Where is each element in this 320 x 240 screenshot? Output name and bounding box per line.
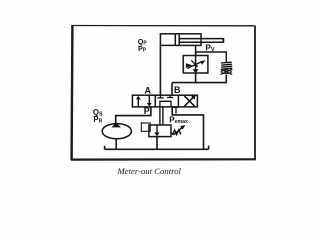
cylinder C1 body <box>160 34 223 46</box>
flow control valve F1 box <box>183 56 208 74</box>
flow control throttle and arrow <box>186 56 206 74</box>
relief valve adjust arrow <box>174 125 186 135</box>
wire: cylinder outlet down to flow valve <box>195 45 197 55</box>
valve right envelope crossed arrows <box>184 95 195 106</box>
valve V1 body <box>132 95 197 107</box>
svg-text:T: T <box>173 105 179 115</box>
relief valve R1 body <box>149 125 171 137</box>
wire: A-line valve to cylinder <box>159 45 161 95</box>
wire: Pv pilot line <box>196 52 227 63</box>
wire: flow valve to B-rail <box>195 73 197 83</box>
wire: T-line valve to tank <box>172 107 203 149</box>
check valve spring (right branch) <box>221 62 232 69</box>
border frame <box>71 25 256 160</box>
svg-text:P: P <box>144 106 150 116</box>
wire: P-line pump to valve <box>116 107 151 123</box>
wire: B-line down to valve <box>171 83 173 96</box>
wire: relief valve to tank rail <box>156 137 158 149</box>
svg-text:Meter-out Control: Meter-out Control <box>117 166 182 176</box>
valve centre blocked ports <box>157 95 173 107</box>
tank rail <box>105 146 209 150</box>
cylinder rod <box>179 38 223 40</box>
relief valve R1 pilot box <box>141 123 150 131</box>
pump P1 <box>102 123 131 139</box>
check valve poppet <box>221 69 233 74</box>
wire: double line valve to relief valve <box>159 107 161 125</box>
relief valve spring <box>171 130 181 135</box>
svg-text:B: B <box>174 85 181 95</box>
relief valve arrow <box>154 125 159 136</box>
valve left envelope arrows <box>136 96 152 107</box>
svg-text:Pemax: Pemax <box>169 116 188 125</box>
wire: B-rail horizontal <box>172 82 227 84</box>
cylinder piston <box>174 34 176 46</box>
wire: pump to tank rail <box>115 139 117 149</box>
wire: check valve to B-rail <box>225 75 227 83</box>
svg-text:A: A <box>145 86 152 96</box>
